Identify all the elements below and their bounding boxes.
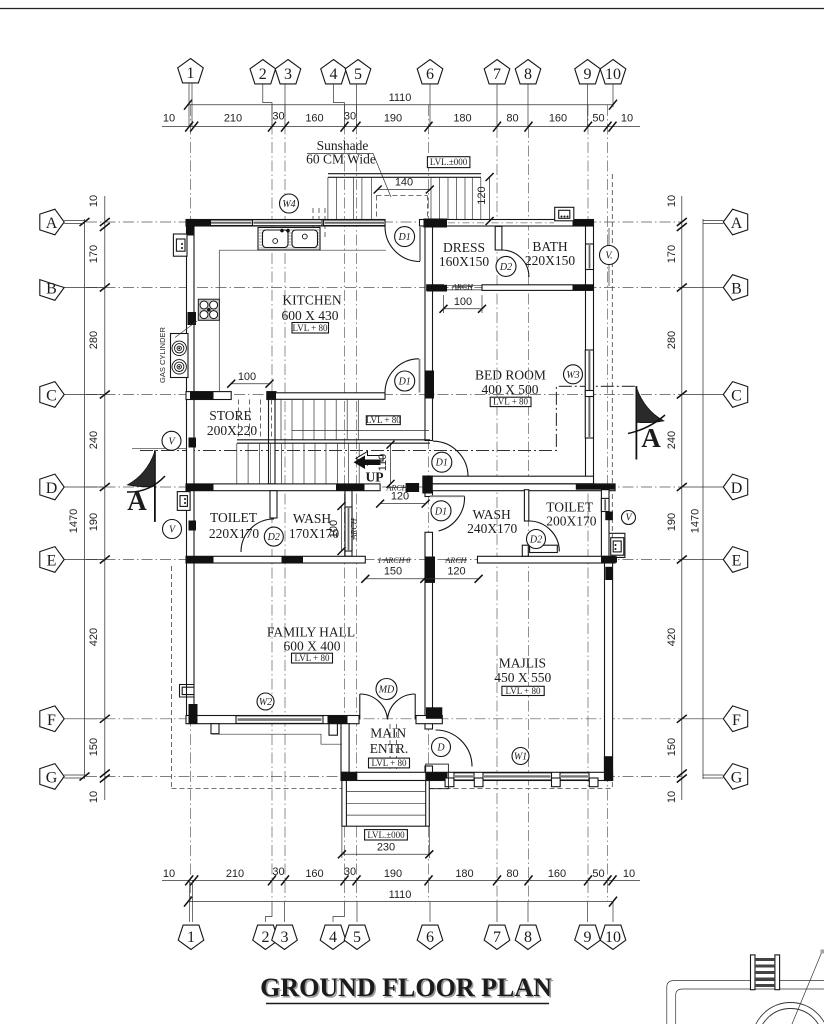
svg-text:200X170: 200X170 <box>546 514 596 529</box>
left overall dimension line 1470 <box>84 219 86 779</box>
grid6 spine wall lower <box>425 532 433 729</box>
svg-text:G: G <box>731 770 743 787</box>
svg-text:160: 160 <box>549 113 567 125</box>
svg-text:E: E <box>732 553 742 570</box>
svg-text:LVL.±000: LVL.±000 <box>430 157 468 167</box>
svg-text:D1: D1 <box>398 377 411 388</box>
svg-text:190: 190 <box>384 113 402 125</box>
level box family hall <box>292 653 333 663</box>
row marker pentagon E right <box>682 547 748 573</box>
column marker pentagon 3 bottom <box>272 925 298 949</box>
svg-text:10: 10 <box>88 195 100 207</box>
svg-text:280: 280 <box>88 331 100 349</box>
dim 110 stair landing <box>377 441 395 488</box>
svg-text:LVL + 80: LVL + 80 <box>506 686 541 696</box>
stair lower flight treads <box>237 443 359 484</box>
drawing title GROUND FLOOR PLAN <box>260 973 552 1004</box>
svg-text:BATH: BATH <box>532 239 568 254</box>
symbol circle V west lower <box>163 520 182 539</box>
level box bedroom <box>490 397 531 407</box>
right overall dimension line 1470 <box>702 219 704 779</box>
svg-text:1: 1 <box>187 65 195 82</box>
svg-text:10: 10 <box>621 113 633 125</box>
grid column line 7 <box>496 127 498 901</box>
svg-text:120: 120 <box>476 186 488 204</box>
svg-text:8: 8 <box>524 66 532 83</box>
leader line pentagon 1 (double) <box>188 83 190 127</box>
bottom leader pentagon 3 <box>284 902 286 922</box>
dress-bath partition wall <box>495 226 502 250</box>
svg-text:ARCH: ARCH <box>451 282 474 291</box>
svg-text:MAIN: MAIN <box>370 726 406 741</box>
sunshade dashed entrance canopy left <box>389 724 391 788</box>
bedroom south wall <box>425 476 594 484</box>
svg-text:240: 240 <box>666 431 678 449</box>
svg-text:80: 80 <box>506 868 518 880</box>
adjacent detail ladder <box>751 955 780 990</box>
symbol circle MD <box>376 679 397 700</box>
west wall vent blob upper <box>189 438 197 448</box>
svg-text:D: D <box>46 480 58 497</box>
toilet2 east fixture box <box>611 538 624 556</box>
column marker pentagon 1 bottom <box>178 925 204 949</box>
bottom segment ticks <box>185 875 616 885</box>
ventilator leader line west <box>132 447 186 449</box>
svg-text:10: 10 <box>88 791 100 803</box>
label STORE <box>207 408 257 438</box>
dim 120 corridor arch <box>376 491 430 508</box>
store north wall west part <box>186 392 231 400</box>
svg-text:30: 30 <box>272 111 284 123</box>
label WASH 1 <box>289 511 339 541</box>
label ARCH wash window rotated <box>350 517 359 540</box>
store north wall jamb <box>267 392 276 400</box>
svg-text:100: 100 <box>238 371 256 383</box>
svg-text:4: 4 <box>330 66 338 83</box>
grid row line F <box>86 718 681 720</box>
black column B-g6 <box>427 285 447 292</box>
leader line pentagon 10 <box>612 84 614 107</box>
grid6 spine wall mid <box>425 476 433 496</box>
svg-text:C: C <box>46 388 57 405</box>
wash1 arch window <box>345 507 352 551</box>
svg-text:190: 190 <box>384 868 402 880</box>
symbol circle D2 toilet1 <box>264 527 283 546</box>
row F pilaster 1 <box>211 724 219 734</box>
grid6 spine wall upper <box>425 226 433 441</box>
top segment ticks <box>185 122 616 132</box>
svg-text:10: 10 <box>163 868 175 880</box>
leader line pentagon 2 stepped <box>263 84 272 127</box>
row marker pentagon D right <box>682 474 748 500</box>
svg-text:450 X 550: 450 X 550 <box>494 670 551 685</box>
door D majlis arc <box>436 730 473 767</box>
sunshade canopy hatch lines left group <box>328 177 372 219</box>
ventilator line east bath <box>608 228 610 286</box>
wash2 door sill <box>530 545 558 552</box>
window W3 bedroom east <box>585 350 593 438</box>
svg-text:D1: D1 <box>435 458 448 469</box>
east jog wall D-E <box>601 490 609 557</box>
leader line pentagon 7 <box>496 84 498 127</box>
symbol circle D2 dress <box>496 256 516 276</box>
svg-text:ENTR.: ENTR. <box>370 741 409 756</box>
svg-text:1110: 1110 <box>389 92 412 104</box>
label TOILET 2 <box>546 500 597 529</box>
dim 100 store door <box>227 371 273 388</box>
svg-text:110: 110 <box>377 454 389 472</box>
svg-text:5: 5 <box>353 929 361 946</box>
bottom leader pentagon 2 stepped <box>266 902 273 922</box>
grid row line E <box>86 559 681 561</box>
right segment dimension line <box>681 196 683 800</box>
north wall window above dress <box>448 222 554 224</box>
label Sunshade note <box>306 138 391 197</box>
svg-text:30: 30 <box>272 866 284 878</box>
section marker A right <box>628 386 665 460</box>
wash2 toilet2 partition <box>524 490 528 521</box>
svg-text:1 ARCH 0: 1 ARCH 0 <box>378 556 411 565</box>
black column G porch <box>341 772 357 780</box>
black column D-g4 <box>336 484 365 491</box>
west bay window <box>180 685 195 698</box>
column marker pentagon 5 bottom <box>344 925 370 949</box>
black column F-g4 <box>328 716 348 724</box>
svg-text:9: 9 <box>584 929 592 946</box>
right segment labels rotated <box>666 195 678 803</box>
row G pilaster 2 <box>474 778 483 787</box>
svg-text:10: 10 <box>163 113 175 125</box>
row G pilaster 4 <box>589 778 598 787</box>
svg-text:2: 2 <box>262 929 270 946</box>
svg-text:240X170: 240X170 <box>467 521 517 536</box>
sunshade canopy hatch lines right group <box>431 177 481 219</box>
bottom overall dim tick left <box>184 897 192 907</box>
adjacent detail box bottom right <box>667 981 824 1024</box>
column marker pentagon 10 top <box>600 60 626 84</box>
door D2 dress arc <box>502 250 529 277</box>
svg-text:V.: V. <box>605 251 613 262</box>
kitchen south wall over stairs <box>273 393 385 400</box>
column marker pentagon 2 top <box>250 60 276 84</box>
east wall vent blob <box>605 512 613 521</box>
top overall dimension line 1110 <box>188 104 613 106</box>
row E wall east part <box>478 556 616 563</box>
bedroom east wall <box>586 226 594 484</box>
window W4 kitchen north <box>253 220 323 226</box>
row B wall dress-bath south west part <box>427 285 444 291</box>
black column F-g1 <box>189 704 198 724</box>
row B wall dress-bath south east part <box>482 285 594 291</box>
svg-text:600 X 400: 600 X 400 <box>284 639 341 654</box>
svg-text:6: 6 <box>426 66 434 83</box>
bottom overall dim tick right <box>609 897 617 907</box>
west wall vent blob lower <box>189 521 197 531</box>
symbol circle V east bath <box>600 246 619 265</box>
arch opening lines dress south <box>444 284 483 286</box>
symbol circle D1 wash2 <box>431 501 451 521</box>
dim 120 canopy side <box>476 173 494 225</box>
sunshade dashed entrance canopy right <box>395 724 397 788</box>
svg-text:120: 120 <box>447 566 465 578</box>
west wall grid1 <box>187 220 195 716</box>
label MAJLIS <box>494 656 551 686</box>
wash1 east wall <box>345 491 352 557</box>
dim 230 entrance steps <box>338 826 433 858</box>
grid column line 9 <box>587 105 589 901</box>
svg-text:STORE: STORE <box>209 408 252 423</box>
top segment labels <box>163 111 633 125</box>
svg-text:GAS CYLINDER: GAS CYLINDER <box>158 326 167 382</box>
gas cylinder unit <box>171 321 198 378</box>
symbol circle D majlis <box>432 738 451 757</box>
grid column line 6 <box>428 105 430 901</box>
svg-text:420: 420 <box>666 628 678 646</box>
svg-text:9: 9 <box>584 66 592 83</box>
svg-text:160: 160 <box>305 113 323 125</box>
label KITCHEN <box>282 293 342 324</box>
svg-text:A: A <box>46 215 58 232</box>
bottom leader pentagon 7 <box>496 902 498 922</box>
stair UP arrow <box>354 456 381 470</box>
grid row line A <box>86 221 681 223</box>
black column E-g10 <box>601 556 617 562</box>
symbol circle W1 <box>512 748 529 765</box>
svg-text:LVL + 80: LVL + 80 <box>293 323 328 333</box>
sunshade dashed outline west <box>171 566 173 789</box>
stair upper flight treads <box>281 399 358 440</box>
level box main entr <box>369 758 410 768</box>
svg-text:ARCH: ARCH <box>350 517 359 540</box>
svg-text:D1: D1 <box>397 232 410 243</box>
hidden stair dashes above wall <box>313 208 325 240</box>
svg-text:160X150: 160X150 <box>439 254 489 269</box>
door D1 kitchen south arc <box>385 359 419 393</box>
main door MD double arcs <box>359 694 361 720</box>
row G window west <box>454 773 474 780</box>
svg-text:D1: D1 <box>434 506 447 517</box>
svg-text:W4: W4 <box>282 199 295 210</box>
svg-text:10: 10 <box>666 791 678 803</box>
dim 140 canopy <box>374 177 434 194</box>
north wall window right of W4 <box>324 220 386 226</box>
row G pilaster 1 <box>445 778 454 787</box>
svg-text:KITCHEN: KITCHEN <box>282 293 341 308</box>
bottom overall dimension line 1110 <box>188 901 613 903</box>
row marker pentagon G right <box>703 764 748 790</box>
leader line pentagon 9 <box>587 84 589 127</box>
row G pilaster 3 <box>552 778 561 787</box>
black column C-g1 <box>190 392 214 400</box>
sheet top border <box>0 8 824 10</box>
svg-text:230: 230 <box>377 842 395 854</box>
bottom leader pentagon 8 <box>527 902 529 922</box>
svg-text:MD: MD <box>378 685 395 696</box>
sunshade dashed outline south-west <box>172 788 342 790</box>
wash2 partition stub <box>522 545 528 556</box>
svg-text:3: 3 <box>281 929 289 946</box>
sunshade dashed outline east <box>611 174 613 789</box>
grid row line B <box>86 287 681 289</box>
stair hidden treads in store (dashed) <box>238 400 271 441</box>
column marker pentagon 4 top <box>321 60 347 84</box>
black column D-g9 <box>576 484 615 490</box>
kitchen sink unit <box>258 228 320 251</box>
row D wall toilet-wash north <box>186 484 380 491</box>
column marker pentagon 8 bottom <box>515 925 541 949</box>
porch west wall <box>341 724 349 773</box>
black column B-g9 <box>573 285 594 291</box>
column marker pentagon 7 bottom <box>484 925 510 949</box>
row marker pentagon B right <box>682 275 748 301</box>
grid column line 10 <box>607 105 609 901</box>
bottom leader pentagon 4 stepped <box>333 902 345 922</box>
svg-text:B: B <box>731 281 742 298</box>
symbol circle W3 <box>564 365 583 384</box>
svg-text:A: A <box>731 215 743 232</box>
svg-text:ARCH: ARCH <box>386 484 409 493</box>
svg-text:W3: W3 <box>566 370 579 381</box>
svg-text:B: B <box>46 281 57 298</box>
left segment labels rotated <box>88 195 100 803</box>
svg-text:200X220: 200X220 <box>207 423 257 438</box>
black column B-g1 <box>188 312 197 325</box>
svg-text:30: 30 <box>344 111 356 123</box>
symbol circle D1 kitchen north <box>395 227 415 247</box>
black column E-g6 <box>425 557 435 583</box>
svg-text:D: D <box>436 743 445 754</box>
svg-text:DRESS: DRESS <box>443 240 485 255</box>
svg-text:WASH: WASH <box>472 507 511 522</box>
svg-text:7: 7 <box>493 66 501 83</box>
label ARCH dress <box>451 282 474 291</box>
black column G-g10 <box>604 756 613 780</box>
stair mid rail double line <box>237 439 430 441</box>
label ARCH majlis <box>445 556 468 565</box>
svg-text:280: 280 <box>666 331 678 349</box>
grid column line 4 <box>344 105 346 901</box>
row G window east <box>560 773 589 780</box>
black column D-g6 <box>406 483 420 492</box>
svg-text:150: 150 <box>666 738 678 756</box>
grid6 spine wall bottom stub <box>425 766 433 780</box>
svg-text:190: 190 <box>666 513 678 531</box>
grid row line C <box>86 394 681 396</box>
svg-text:30: 30 <box>344 866 356 878</box>
svg-text:W1: W1 <box>514 752 527 763</box>
leader line pentagon 5 <box>356 84 358 127</box>
north wall row A west part <box>186 220 385 227</box>
column marker pentagon 4 bottom <box>320 925 346 949</box>
grid column line 3 <box>284 105 286 901</box>
svg-text:A: A <box>641 423 661 453</box>
label BED ROOM <box>475 368 546 398</box>
row G window W1 centre <box>483 773 552 780</box>
label FAMILY HALL <box>267 625 355 654</box>
svg-text:LVL + 80: LVL + 80 <box>372 758 407 768</box>
svg-text:150: 150 <box>88 738 100 756</box>
grid row line D <box>86 486 681 488</box>
svg-text:1: 1 <box>187 929 195 946</box>
symbol circle D2 toilet2 <box>527 530 546 549</box>
svg-text:3: 3 <box>284 66 292 83</box>
svg-text:10: 10 <box>605 929 621 946</box>
svg-text:6: 6 <box>426 929 434 946</box>
symbol circle W2 <box>257 693 274 710</box>
svg-text:D2: D2 <box>267 532 280 543</box>
left overall dim ticks <box>80 218 90 226</box>
row F wall east part <box>416 716 442 724</box>
svg-text:C: C <box>731 388 742 405</box>
toilet1 wash1 partition <box>270 491 277 518</box>
svg-text:LVL + 80: LVL + 80 <box>493 397 528 407</box>
label TOILET 1 <box>209 510 259 541</box>
door D1 kitchen north arc <box>385 227 420 262</box>
black column F-g6 <box>426 707 442 719</box>
label WASH 2 <box>467 507 517 536</box>
svg-text:G: G <box>46 770 58 787</box>
black column A-g9 <box>573 220 594 227</box>
column marker pentagon 7 top <box>484 60 510 84</box>
svg-text:D: D <box>731 480 743 497</box>
grid column line 2 <box>271 105 273 901</box>
dim 100 dress arch <box>440 295 487 313</box>
svg-text:420: 420 <box>88 628 100 646</box>
section cut line A-A <box>140 386 636 450</box>
top segment dimension line <box>162 126 640 128</box>
stair landing dashed box top <box>376 196 427 222</box>
svg-text:240: 240 <box>88 431 100 449</box>
svg-text:LVL.±000: LVL.±000 <box>367 830 405 840</box>
bottom segment dimension line <box>162 879 640 881</box>
level box entrance steps <box>365 830 408 840</box>
svg-text:170X170: 170X170 <box>289 526 339 541</box>
row marker pentagon E left <box>40 547 105 573</box>
kitchen stove 4 burner <box>198 299 219 320</box>
svg-text:TOILET: TOILET <box>546 500 594 515</box>
svg-text:170: 170 <box>666 245 678 263</box>
bottom leader pentagon 6 <box>429 902 431 922</box>
svg-text:D2: D2 <box>499 262 512 273</box>
svg-text:10: 10 <box>605 66 621 83</box>
bath east vent window <box>586 244 594 270</box>
label BATH <box>525 239 575 268</box>
door D1 bedroom arc <box>433 441 468 476</box>
svg-text:10: 10 <box>623 868 635 880</box>
svg-text:WASH: WASH <box>293 511 332 526</box>
svg-text:180: 180 <box>455 868 473 880</box>
door D1 wash2 arc <box>439 496 465 531</box>
svg-text:W2: W2 <box>259 697 272 708</box>
svg-text:190: 190 <box>88 513 100 531</box>
svg-text:ARCH: ARCH <box>445 556 468 565</box>
level box canopy top <box>427 157 470 168</box>
svg-text:E: E <box>47 553 57 570</box>
left segment dimension line <box>104 196 106 800</box>
entrance steps <box>342 781 429 827</box>
svg-text:600 X 430: 600 X 430 <box>282 308 339 323</box>
kitchen west vent box <box>173 234 187 256</box>
east jog vent window <box>601 498 609 511</box>
svg-text:400 X 500: 400 X 500 <box>482 382 539 397</box>
column marker pentagon 10 bottom <box>600 925 626 949</box>
grid column line 5 <box>356 105 358 901</box>
svg-text:2: 2 <box>259 66 267 83</box>
door D2 toilet2 arc <box>529 521 560 552</box>
svg-text:170: 170 <box>88 245 100 263</box>
north wall row A east part <box>420 220 594 227</box>
black column G-g6 <box>426 772 448 780</box>
